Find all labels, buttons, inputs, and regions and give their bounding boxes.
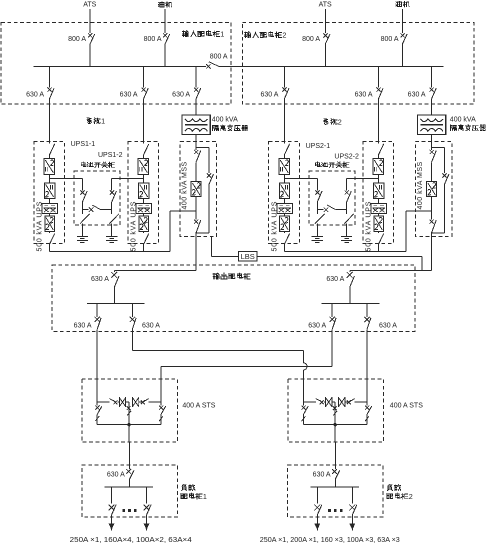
STS output bus: [97, 424, 161, 426]
svg-text:800 A: 800 A: [210, 54, 228, 61]
load cabinet 1 feeder breaker: [146, 487, 148, 503]
load cabinet 1 feeder arrow: [109, 524, 115, 530]
MSS static switch box: [427, 182, 437, 197]
load cabinet 1 ellipsis dots: [122, 509, 125, 512]
output cabinet bus: [87, 303, 144, 305]
svg-text:500 kVA UPS: 500 kVA UPS: [271, 201, 278, 252]
wire ATS to bus 1: [89, 44, 91, 66]
STS center tap switch: [127, 406, 131, 410]
svg-text:800 A: 800 A: [381, 36, 399, 43]
STS main line left segment: [304, 401, 316, 403]
MSS static switch box: [191, 182, 201, 197]
MSS wire static box to output switch: [431, 197, 433, 220]
UPS UPS2-1 box: [269, 142, 300, 244]
wire UPS2-2 to output module: [377, 213, 379, 216]
STS output bus: [304, 424, 368, 426]
svg-text:1: 1: [203, 492, 207, 501]
wire ATS feeder 1: [89, 9, 91, 33]
wire UPS2-1 DC link: [283, 174, 285, 183]
cabinet label text 2: [244, 32, 250, 38]
svg-text:400 A STS: 400 A STS: [182, 403, 215, 410]
UPS UPS1-2 input disconnect: [144, 144, 149, 155]
bus input cabinet 2: [218, 65, 443, 67]
isolation transformer T1: [182, 115, 210, 135]
output module UPS1-2: [139, 216, 149, 231]
MSS wire static box to output switch: [195, 197, 197, 220]
UPS UPS2-1 input disconnect: [284, 144, 289, 155]
MSS2 output feed wire: [431, 236, 433, 270]
wire UPS2-2 output: [377, 245, 379, 252]
svg-text:630 A: 630 A: [91, 276, 109, 283]
svg-text:630 A: 630 A: [120, 91, 138, 98]
isolation transformer T2: [418, 115, 446, 135]
STS box: [82, 379, 178, 442]
svg-text:250A ×1, 160A×4, 100A×2, 63A×4: 250A ×1, 160A×4, 100A×2, 63A×4: [70, 537, 192, 544]
wire UPS1-2 to output module: [143, 213, 145, 216]
static switch module UPS2-1: [277, 204, 292, 214]
cross feeder wire sys2 to STS1: [331, 329, 333, 366]
UPS UPS1-1 box: [34, 142, 65, 244]
battery isolator 1: [81, 210, 83, 214]
cross feeder wire sys1 to STS2 with hop: [131, 329, 133, 350]
node generator feeder 2: [396, 1, 402, 6]
LBS tie wire to system 2: [257, 255, 422, 257]
wire UPS1-1 output: [48, 245, 50, 252]
wire UPS1-2 output: [143, 245, 145, 252]
load cabinet 2 box: [288, 465, 384, 517]
svg-text:400 kVA MSS: 400 kVA MSS: [417, 161, 424, 209]
svg-text:630 A: 630 A: [326, 276, 344, 283]
svg-text:630 A: 630 A: [313, 471, 331, 478]
wire feeder 1-3 down: [195, 99, 197, 115]
MSS input switch: [195, 147, 197, 150]
battery string 1: [312, 235, 323, 237]
STS output wire: [128, 425, 130, 443]
rectifier UPS1-1: [44, 158, 55, 174]
rectifier UPS1-2: [138, 158, 149, 174]
inverter UPS1-2: [139, 183, 149, 198]
load cabinet 2 bus: [310, 486, 359, 488]
battery switch cabinet box: [309, 171, 355, 225]
static switch module UPS1-2: [136, 204, 151, 214]
svg-text:630 A: 630 A: [74, 323, 92, 330]
svg-text:630 A: 630 A: [379, 323, 397, 330]
node generator feeder 1: [158, 2, 164, 7]
wire UPS2-2 inverter to static switch: [377, 198, 379, 203]
battery feed switch 1: [316, 178, 318, 190]
battery feed switch 2: [346, 178, 348, 190]
load cabinet 2 label: [387, 485, 392, 491]
battery feed switch 1: [81, 178, 83, 190]
svg-text:630 A: 630 A: [408, 91, 426, 98]
svg-text:500 kVA UPS: 500 kVA UPS: [131, 201, 138, 252]
wire feeder 1-2 down: [143, 99, 145, 143]
svg-text:800 A: 800 A: [68, 36, 86, 43]
MSS box: [415, 142, 452, 237]
svg-text:LBS: LBS: [241, 252, 255, 261]
battery isolator 2: [346, 210, 348, 214]
STS input wires: [96, 379, 98, 402]
feeder wire sys2 straight to STS2: [366, 329, 368, 402]
svg-text:1: 1: [101, 117, 105, 126]
UPS output bus 2: [284, 250, 406, 252]
wire generator to bus 1: [164, 44, 166, 66]
STS thyristor pair 2: [338, 397, 340, 407]
STS thyristor pair 2: [132, 397, 134, 407]
output module UPS2-1: [280, 216, 290, 231]
battery string 2: [106, 235, 117, 237]
svg-text:400 A STS: 400 A STS: [390, 403, 423, 410]
STS thyristor pair 1: [325, 397, 327, 407]
static switch module UPS2-2: [371, 204, 386, 214]
wire UPS1-2 inverter to static switch: [143, 198, 145, 203]
STS right bypass switch: [366, 402, 368, 405]
STS thyristor pair 1: [118, 397, 120, 407]
svg-text:630 A: 630 A: [26, 91, 44, 98]
svg-text:UPS1-2: UPS1-2: [98, 152, 123, 159]
wire generator feeder 2: [401, 9, 403, 33]
STS output wire: [334, 425, 336, 443]
battery isolator 1: [316, 210, 318, 214]
MSS UPS-input wire: [405, 211, 407, 252]
battery switch cabinet box: [74, 171, 120, 225]
svg-text:500 kVA UPS: 500 kVA UPS: [365, 201, 372, 252]
UPS UPS2-1 output disconnect: [283, 231, 285, 233]
UPS UPS2-2 input disconnect: [378, 144, 383, 155]
svg-text:2: 2: [282, 31, 286, 40]
MSS bypass tee wire: [431, 135, 433, 148]
rectifier UPS2-2: [373, 158, 384, 174]
svg-text:UPS1-1: UPS1-1: [71, 141, 96, 148]
MSS output switch: [430, 220, 434, 224]
inverter UPS2-2: [373, 183, 383, 198]
svg-text:400 kVA: 400 kVA: [212, 117, 238, 124]
rectifier UPS2-1: [279, 158, 290, 174]
battery feed switch 2: [111, 178, 113, 190]
output module UPS2-2: [374, 216, 384, 231]
STS main line left segment: [97, 401, 109, 403]
battery transfer link wire: [317, 209, 323, 211]
UPS UPS2-2 output disconnect: [377, 231, 379, 233]
UPS UPS1-1 input disconnect: [49, 144, 54, 155]
static switch module UPS1-1: [42, 204, 57, 214]
STS output junction: [127, 423, 130, 426]
svg-text:800 A: 800 A: [144, 36, 162, 43]
svg-text:2: 2: [338, 118, 342, 127]
feeder wire sys1 straight to STS1: [96, 329, 98, 402]
input distribution cabinet 1 box: [1, 23, 231, 105]
UPS UPS1-2 box: [128, 142, 159, 244]
STS right switch: [347, 400, 351, 404]
MSS bypass switch: [443, 147, 445, 173]
STS left bypass switch: [303, 402, 305, 405]
wire feeder 2-2 down: [377, 99, 379, 143]
STS box: [288, 379, 384, 442]
STS left bypass switch: [96, 402, 98, 405]
MSS box: [180, 142, 217, 237]
UPS UPS1-2 output disconnect: [143, 231, 145, 233]
wire UPS1-1 to output module: [48, 213, 50, 216]
output module UPS1-1: [45, 216, 55, 231]
wire generator feeder 1: [164, 9, 166, 33]
MSS bypass rejoin wire: [196, 232, 209, 234]
input distribution cabinet 2 box: [242, 23, 473, 105]
wire ATS to bus 2: [324, 44, 326, 66]
battery transfer switch: [324, 207, 329, 212]
wire generator to bus 2: [401, 44, 403, 66]
battery switch cabinet label: [81, 162, 86, 167]
wire UPS2-2 DC link: [377, 174, 379, 183]
svg-text:630 A: 630 A: [142, 323, 160, 330]
load cabinet 1 box: [82, 465, 177, 517]
battery cabinet 2 DC feed wires: [284, 177, 317, 179]
load cabinet 2 feeder arrow: [349, 524, 355, 530]
STS main line right segment: [345, 401, 348, 403]
MSS input switch: [431, 147, 433, 150]
svg-text:500 kVA UPS: 500 kVA UPS: [36, 201, 43, 252]
load cabinet 2 feeder breaker: [316, 487, 318, 503]
svg-text:250A ×1, 200A ×1, 160 ×3, 100A: 250A ×1, 200A ×1, 160 ×3, 100A ×3, 63A ×…: [260, 537, 400, 544]
inverter UPS1-1: [44, 183, 54, 198]
MSS output switch: [194, 220, 198, 224]
inverter UPS2-1: [279, 183, 289, 198]
wire feeder 1-1 down: [48, 99, 50, 143]
svg-text:ATS: ATS: [319, 1, 332, 8]
battery string 2: [341, 235, 352, 237]
wire UPS1-2 DC link: [143, 174, 145, 183]
STS right switch: [141, 400, 145, 404]
STS left switch: [110, 399, 117, 403]
STS main line right segment: [139, 401, 143, 403]
wire UPS2-1 output: [283, 245, 285, 252]
UPS UPS1-1 output disconnect: [48, 231, 50, 233]
battery isolator 2: [111, 210, 113, 214]
load cabinet 1 feeder breaker: [111, 487, 113, 503]
LBS tie wire from MSS1: [210, 236, 212, 256]
svg-text:630 A: 630 A: [355, 91, 373, 98]
svg-text:800 A: 800 A: [302, 36, 320, 43]
svg-text:2: 2: [409, 492, 413, 501]
MSS bypass switch: [208, 147, 210, 173]
svg-text:630 A: 630 A: [107, 471, 125, 478]
output cabinet bus: [322, 303, 380, 305]
MSS output wire: [431, 233, 433, 236]
STS input wires: [303, 379, 305, 402]
output distribution cabinet box: [52, 265, 415, 332]
wire UPS2-1 inverter to static switch: [283, 198, 285, 203]
MSS output wire: [195, 233, 197, 236]
STS center tap switch: [333, 406, 337, 410]
bus input cabinet 1: [33, 65, 206, 67]
UPS output bus 1: [49, 250, 170, 252]
STS right bypass switch: [160, 402, 162, 405]
load cabinet 2 feeder arrow: [314, 524, 320, 530]
load cabinet 1 bus: [105, 486, 154, 488]
MSS bypass rejoin wire: [432, 232, 445, 234]
svg-text:400 kVA MSS: 400 kVA MSS: [182, 161, 189, 209]
load cabinet 1 feeder arrow: [144, 524, 150, 530]
cabinet label text 1: [182, 31, 188, 37]
battery string 1: [77, 235, 88, 237]
wire feeder 2-1 down: [283, 99, 285, 143]
load cabinet 1 label: [182, 485, 187, 491]
system 1 label: [87, 118, 91, 124]
output cabinet label: [213, 273, 219, 279]
STS left switch: [316, 399, 323, 403]
STS output junction: [334, 423, 337, 426]
load cabinet 2 feeder breaker: [351, 487, 353, 503]
svg-text:ATS: ATS: [83, 2, 96, 9]
svg-text:630 A: 630 A: [260, 91, 278, 98]
svg-text:630 A: 630 A: [172, 91, 190, 98]
MSS UPS-input wire: [169, 211, 171, 252]
battery transfer link wire: [82, 209, 88, 211]
LBS load bus switch: [238, 251, 257, 261]
battery cabinet 1 DC feed wires: [49, 177, 82, 179]
wire UPS1-1 DC link: [48, 174, 50, 183]
battery switch cabinet label: [316, 162, 321, 167]
wire ATS feeder 2: [324, 9, 326, 33]
wire UPS2-1 to output module: [283, 213, 285, 216]
svg-text:630 A: 630 A: [308, 323, 326, 330]
wire UPS1-1 inverter to static switch: [48, 198, 50, 203]
MSS bypass tee wire: [195, 135, 197, 148]
svg-text:UPS2-1: UPS2-1: [306, 143, 331, 150]
load cabinet 2 ellipsis dots: [328, 509, 331, 512]
battery transfer switch: [89, 207, 94, 212]
system 2 label: [324, 119, 328, 125]
MSS1 output feed wire: [195, 236, 197, 270]
svg-text:1: 1: [220, 30, 224, 39]
svg-text:400 kVA: 400 kVA: [450, 116, 476, 123]
UPS UPS2-2 box: [363, 142, 394, 244]
svg-text:UPS2-2: UPS2-2: [334, 154, 359, 161]
wire feeder 2-3 down: [431, 99, 433, 115]
